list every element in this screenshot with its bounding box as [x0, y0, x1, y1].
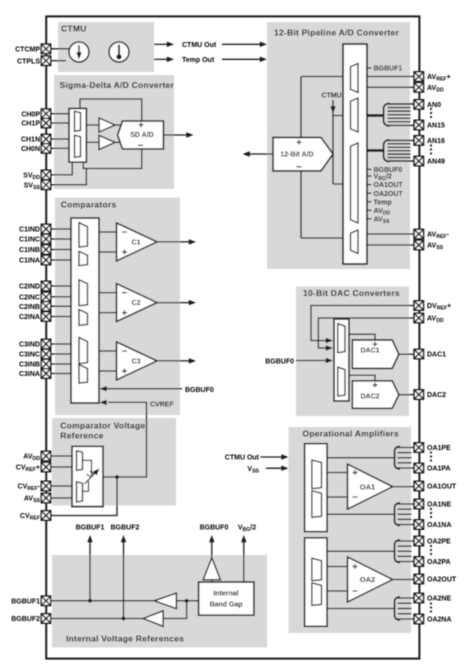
svg-text:C3INB: C3INB — [19, 362, 40, 369]
svg-text:OA1: OA1 — [360, 482, 375, 491]
svg-text:Comparator Voltage: Comparator Voltage — [60, 421, 145, 431]
svg-text:DAC2: DAC2 — [427, 392, 446, 399]
svg-text:C1INC: C1INC — [19, 237, 40, 244]
svg-text:Temp Out: Temp Out — [182, 57, 215, 64]
svg-text:SD A/D: SD A/D — [130, 132, 153, 139]
svg-text:BGBUF2: BGBUF2 — [111, 525, 140, 532]
svg-text:C3IND: C3IND — [19, 342, 40, 349]
svg-text:AN0: AN0 — [427, 102, 441, 109]
svg-text:DAC1: DAC1 — [360, 347, 379, 354]
svg-text:CH0N: CH0N — [21, 146, 40, 153]
svg-text:CH1N: CH1N — [21, 137, 40, 144]
svg-text:C2INC: C2INC — [19, 295, 40, 302]
svg-text:C3INA: C3INA — [19, 371, 40, 378]
svg-text:12-Bit A/D: 12-Bit A/D — [280, 152, 313, 159]
svg-text:CTMU Out: CTMU Out — [225, 455, 260, 462]
svg-text:OA2NE: OA2NE — [427, 596, 451, 603]
svg-text:CTMU: CTMU — [61, 24, 87, 34]
svg-text:OA1OUT: OA1OUT — [374, 182, 404, 189]
svg-text:C1INA: C1INA — [19, 258, 40, 265]
svg-text:OA2OUT: OA2OUT — [374, 191, 404, 198]
svg-text:CTMU Out: CTMU Out — [182, 42, 217, 49]
svg-text:AN16: AN16 — [427, 138, 445, 145]
svg-text:Sigma-Delta A/D Converter: Sigma-Delta A/D Converter — [60, 80, 175, 90]
svg-text:OA1NE: OA1NE — [427, 502, 451, 509]
svg-text:C2IND: C2IND — [19, 284, 40, 291]
svg-text:OA2OUT: OA2OUT — [427, 577, 457, 584]
svg-text:Comparators: Comparators — [61, 200, 117, 210]
svg-text:Internal Voltage References: Internal Voltage References — [66, 634, 184, 644]
svg-text:CTCMP: CTCMP — [15, 46, 40, 53]
svg-text:OA2NA: OA2NA — [427, 617, 452, 624]
svg-text:BGBUF0: BGBUF0 — [185, 387, 214, 394]
svg-text:OA1NA: OA1NA — [427, 522, 452, 529]
svg-text:DAC2: DAC2 — [360, 394, 379, 401]
svg-text:DAC1: DAC1 — [427, 352, 446, 359]
svg-text:BGBUF1: BGBUF1 — [76, 525, 105, 532]
svg-text:CTMU: CTMU — [321, 93, 341, 100]
svg-text:Operational Amplifiers: Operational Amplifiers — [303, 429, 399, 439]
svg-text:BGBUF1: BGBUF1 — [11, 598, 40, 605]
svg-text:CH0P: CH0P — [21, 111, 40, 118]
svg-text:AN49: AN49 — [427, 159, 445, 166]
svg-text:C2INA: C2INA — [19, 314, 40, 321]
svg-text:OA1OUT: OA1OUT — [427, 484, 457, 491]
svg-text:CVREF: CVREF — [150, 401, 174, 408]
svg-text:C2INB: C2INB — [19, 304, 40, 311]
svg-text:OA2PE: OA2PE — [427, 539, 451, 546]
svg-text:OA2PA: OA2PA — [427, 559, 451, 566]
svg-text:CTPLS: CTPLS — [17, 58, 40, 65]
svg-text:CH1P: CH1P — [21, 121, 40, 128]
svg-text:BGBUF0: BGBUF0 — [200, 525, 229, 532]
svg-text:OA2: OA2 — [360, 575, 375, 584]
svg-text:C3INC: C3INC — [19, 352, 40, 359]
svg-text:OA1PE: OA1PE — [427, 445, 451, 452]
svg-text:C1INB: C1INB — [19, 247, 40, 254]
svg-text:AN15: AN15 — [427, 123, 445, 130]
svg-text:BGBUF1: BGBUF1 — [374, 66, 403, 73]
svg-text:BGBUF2: BGBUF2 — [11, 616, 40, 623]
svg-text:C1IND: C1IND — [19, 227, 40, 234]
svg-text:C3: C3 — [132, 359, 141, 366]
svg-text:OA1PA: OA1PA — [427, 466, 451, 473]
svg-text:12-Bit Pipeline A/D Converter: 12-Bit Pipeline A/D Converter — [274, 28, 399, 38]
svg-text:Band Gap: Band Gap — [209, 602, 242, 609]
svg-text:Temp: Temp — [374, 199, 392, 206]
svg-text:C1: C1 — [132, 240, 141, 247]
svg-text:10-Bit DAC Converters: 10-Bit DAC Converters — [303, 288, 400, 298]
svg-text:Internal: Internal — [213, 591, 238, 598]
svg-text:Reference: Reference — [60, 431, 103, 441]
svg-text:BGBUF0: BGBUF0 — [265, 359, 294, 366]
svg-text:C2: C2 — [132, 300, 141, 307]
